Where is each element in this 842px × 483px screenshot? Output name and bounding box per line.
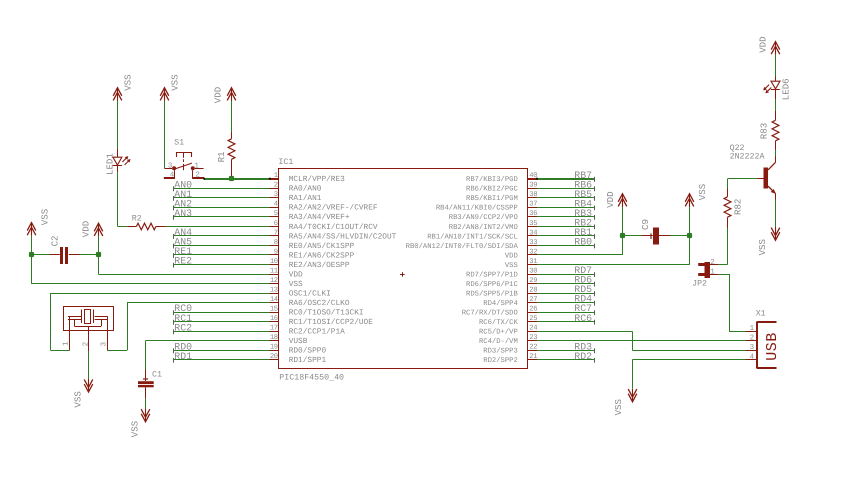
svg-text:3: 3 (274, 191, 278, 199)
svg-text:RA2/AN2/VREF-/CVREF: RA2/AN2/VREF-/CVREF (289, 204, 378, 213)
IC1 pin 18 VUSB (270, 334, 308, 346)
svg-text:1: 1 (710, 268, 715, 276)
IC U1: IC1 PIC18F4550 body (279, 169, 528, 369)
svg-text:RD1/SPP1: RD1/SPP1 (289, 356, 327, 365)
svg-text:VSS: VSS (73, 391, 84, 408)
svg-text:3: 3 (100, 341, 109, 346)
svg-text:IC1: IC1 (278, 158, 293, 167)
supply VSS arrow (X1) (613, 389, 637, 416)
wire end dot MCLR (203, 178, 537, 180)
svg-text:VSS: VSS (613, 398, 624, 415)
svg-text:RC6: RC6 (574, 313, 592, 324)
supply VSS arrow (C1) (130, 409, 150, 438)
svg-text:RE1/AN6/CK2SPP: RE1/AN6/CK2SPP (289, 251, 355, 260)
wire C2-VDD to IC1 pin 11 (98, 255, 269, 275)
svg-text:RB1/AN10/INT1/SCK/SCL: RB1/AN10/INT1/SCK/SCL (427, 232, 518, 241)
svg-text:RA6/OSC2/CLKO: RA6/OSC2/CLKO (289, 299, 350, 308)
junction VSS/C2 (29, 252, 34, 257)
svg-text:RD0/SPP0: RD0/SPP0 (289, 347, 327, 356)
svg-text:USB: USB (764, 332, 781, 361)
net label RD3 wire from pin 22 (537, 341, 595, 353)
svg-text:RA5/AN4/SS/HLVDIN/C2OUT: RA5/AN4/SS/HLVDIN/C2OUT (289, 232, 397, 241)
IC1 pin 38 RB5/KBI1/PGM (466, 191, 537, 203)
svg-text:14: 14 (270, 296, 278, 304)
svg-text:R83: R83 (758, 123, 769, 139)
IC1 pin 22 RD3/SPP3 (483, 344, 537, 356)
net label RB3 wire from pin 36 (537, 208, 595, 220)
svg-text:RA3/AN4/VREF+: RA3/AN4/VREF+ (289, 213, 350, 222)
IC1 pin 25 RC6/TX/CK (479, 315, 537, 327)
switch S1 (164, 138, 204, 179)
svg-text:RE2: RE2 (174, 256, 192, 267)
svg-text:R82: R82 (732, 199, 743, 215)
IC1 name label (278, 158, 293, 167)
IC1 pin 4 RA2/AN2/VREF-/CVREF (270, 201, 378, 213)
svg-text:21: 21 (529, 353, 537, 361)
svg-text:24: 24 (529, 325, 537, 333)
svg-text:VDD: VDD (213, 87, 224, 103)
svg-text:32: 32 (529, 248, 537, 256)
svg-text:RD2/SPP2: RD2/SPP2 (483, 356, 518, 365)
wire Q22 emitter to VSS (775, 193, 777, 228)
svg-text:VSS: VSS (697, 183, 708, 200)
svg-text:RA4/T0CKI/C1OUT/RCV: RA4/T0CKI/C1OUT/RCV (289, 223, 378, 232)
supply VSS arrow (S1) (160, 74, 180, 101)
svg-text:RD5/SPP5/P1B: RD5/SPP5/P1B (466, 290, 518, 299)
svg-text:RE2/AN3/OESPP: RE2/AN3/OESPP (289, 261, 350, 270)
net label RD5 wire from pin 28 (537, 284, 595, 296)
IC1 pin 21 RD2/SPP2 (483, 353, 537, 365)
svg-text:VDD: VDD (289, 270, 303, 279)
IC1 pin 40 RB7/KBI3/PGD (466, 172, 537, 184)
supply VDD arrow (C9) (605, 191, 627, 207)
svg-text:VUSB: VUSB (289, 337, 308, 346)
IC1 pin 8 RE0/AN5/CK1SPP (270, 239, 355, 251)
wire VDD to LED6 (775, 55, 777, 77)
svg-text:12: 12 (270, 277, 278, 285)
transistor Q22 (730, 144, 776, 194)
svg-text:27: 27 (529, 296, 537, 304)
junction VDD/C9 (620, 233, 625, 238)
wire C2-VSS to IC1 pin 12 (31, 255, 269, 284)
svg-text:VSS: VSS (40, 208, 51, 225)
wire LED6 to R83 (775, 99, 777, 111)
svg-text:7: 7 (274, 229, 278, 237)
wire VSS arrow down (689, 207, 691, 236)
svg-text:18: 18 (270, 334, 278, 342)
svg-text:MCLR/VPP/RE3: MCLR/VPP/RE3 (289, 175, 345, 184)
net label AN5 wire to pin 8 (173, 237, 269, 249)
net label RC1 wire to pin 16 (173, 313, 269, 325)
wire pin32 VDD (537, 236, 623, 255)
wire R82 to Q22 base (728, 179, 757, 189)
IC1 pin 39 RB6/KBI2/PGC (466, 182, 537, 194)
svg-text:20: 20 (270, 353, 278, 361)
capacitor C2 (31, 235, 98, 264)
svg-text:JP2: JP2 (692, 279, 707, 288)
resistor R82 (724, 189, 743, 229)
svg-text:VSS: VSS (505, 262, 518, 270)
IC1 pin 35 RB2/AN8/INT2/VMO (449, 220, 537, 232)
svg-text:15: 15 (270, 306, 278, 314)
svg-text:RC7/RX/DT/SDO: RC7/RX/DT/SDO (462, 309, 518, 318)
IC1 pin 34 RB1/AN10/INT1/SCK/SCL (427, 229, 537, 241)
svg-text:RD1: RD1 (174, 351, 192, 362)
resistor R2 (127, 214, 166, 229)
IC1 pin 7 RA5/AN4/SS/HLVDIN/C2OUT (270, 229, 397, 241)
wire VDD to R1 (231, 101, 233, 132)
net label RB6 wire from pin 39 (537, 179, 595, 191)
supply VDD arrow (C2) (81, 221, 103, 237)
svg-text:37: 37 (529, 201, 537, 209)
svg-text:5: 5 (274, 210, 278, 218)
svg-text:1: 1 (750, 325, 755, 333)
wire LED1 to R2 corner (117, 172, 127, 226)
svg-text:VSS: VSS (122, 74, 133, 91)
net label RE2 wire to pin 10 (173, 256, 269, 268)
pin header JP2 (692, 258, 719, 289)
wire X1 pin4 to VSS (632, 360, 745, 389)
svg-text:VSS: VSS (289, 280, 303, 289)
wire VSS to C2 (31, 236, 33, 255)
wire R83 to Q22 collector (775, 150, 777, 162)
svg-text:34: 34 (529, 229, 537, 237)
svg-text:RD6/SPP6/P1C: RD6/SPP6/P1C (466, 280, 518, 289)
connector X1 USB (746, 310, 782, 369)
supply VSS arrow (C9) (685, 183, 708, 207)
svg-text:RD4/SPP4: RD4/SPP4 (483, 299, 518, 308)
svg-text:LED1: LED1 (105, 153, 116, 175)
svg-text:35: 35 (529, 220, 537, 228)
IC1 pin 27 RD4/SPP4 (483, 296, 537, 308)
svg-text:PIC18F4550_40: PIC18F4550_40 (279, 373, 344, 382)
wire pin31 VSS (537, 236, 690, 265)
svg-text:RB2/AN8/INT2/VMO: RB2/AN8/INT2/VMO (449, 223, 518, 232)
IC1 pin 31 VSS (505, 258, 537, 270)
svg-text:2N2222A: 2N2222A (730, 152, 765, 161)
svg-text:4: 4 (750, 353, 755, 361)
net label AN3 wire to pin 5 (173, 208, 269, 220)
svg-text:C2: C2 (50, 235, 61, 246)
resonator 3-pin (62, 307, 113, 352)
IC1 pin 28 RD5/SPP5/P1B (466, 287, 537, 299)
svg-text:2: 2 (274, 182, 278, 190)
svg-text:17: 17 (270, 325, 278, 333)
IC1 pin 9 RE1/AN6/CK2SPP (270, 248, 355, 260)
IC1 pin 10 RE2/AN3/OESPP (270, 258, 350, 270)
svg-text:RB7/KBI3/PGD: RB7/KBI3/PGD (466, 175, 518, 184)
IC1 pin 24 RC5/D+/VP (479, 325, 537, 337)
svg-text:RC4/D-/VM: RC4/D-/VM (479, 337, 518, 346)
IC1 pin 2 RA0/AN0 (270, 182, 322, 194)
svg-text:RB0: RB0 (574, 237, 592, 248)
net label RC2 wire to pin 17 (173, 322, 269, 334)
net label AN1 wire to pin 3 (173, 189, 269, 201)
IC1 pin 3 RA1/AN1 (270, 191, 322, 203)
svg-text:3: 3 (168, 161, 173, 170)
svg-text:26: 26 (529, 306, 537, 314)
IC1 pin 15 RC0/T1OSO/T13CKI (270, 306, 364, 318)
svg-text:3: 3 (750, 343, 755, 352)
IC1 pin 6 RA4/T0CKI/C1OUT/RCV (270, 220, 378, 232)
LED LED6 (763, 77, 791, 101)
svg-text:30: 30 (529, 267, 537, 275)
net label RB2 wire from pin 35 (537, 217, 595, 229)
svg-text:RB5/KBI1/PGM: RB5/KBI1/PGM (466, 194, 518, 203)
supply VDD arrow (LED6) (757, 36, 779, 54)
svg-text:VDD: VDD (81, 221, 92, 237)
wire pin24 D+ to X1 pin3 (537, 331, 746, 350)
net label RD1 wire to pin 20 (173, 351, 269, 363)
svg-text:RD7/SPP7/P1D: RD7/SPP7/P1D (466, 270, 518, 279)
svg-text:RA0/AN0: RA0/AN0 (289, 185, 322, 194)
net label AN0 wire to pin 2 (173, 179, 269, 191)
svg-text:10: 10 (270, 258, 278, 266)
svg-text:19: 19 (270, 344, 278, 352)
supply VSS arrow (LED1) (113, 74, 133, 101)
net label RC6 wire from pin 25 (537, 313, 595, 325)
IC1 pin 33 RB0/AN12/INT0/FLT0/SDI/SDA (406, 239, 538, 251)
junction R1/MCLR (229, 176, 234, 181)
svg-text:4: 4 (274, 201, 278, 209)
net label RD6 wire from pin 29 (537, 275, 595, 287)
svg-text:RC2: RC2 (174, 322, 192, 333)
net label RD7 wire from pin 30 (537, 265, 595, 277)
wire pin23 D- to X1 pin2 (537, 340, 746, 342)
IC1 pin 20 RD1/SPP1 (270, 353, 327, 365)
net label RD2 wire from pin 21 (537, 351, 595, 363)
IC1 pin 30 RD7/SPP7/P1D (466, 267, 537, 279)
IC1 pin 5 RA3/AN4/VREF+ (270, 210, 350, 222)
net label RB1 wire from pin 34 (537, 227, 595, 239)
svg-text:RB4/AN11/KBI0/CSSPP: RB4/AN11/KBI0/CSSPP (436, 204, 518, 213)
svg-text:AN3: AN3 (174, 208, 192, 219)
svg-text:RB3/AN9/CCP2/VPO: RB3/AN9/CCP2/VPO (449, 213, 518, 222)
svg-text:22: 22 (529, 344, 537, 352)
IC1 pin 1 MCLR/VPP/RE3 (270, 172, 346, 184)
supply VSS arrow (Q22) (757, 227, 780, 255)
IC1 origin cross (400, 272, 405, 277)
resistor R1 (216, 132, 235, 178)
IC1 pin 13 OSC1/CLKI (270, 287, 331, 299)
svg-text:23: 23 (529, 334, 537, 342)
capacitor C9 (623, 219, 690, 244)
svg-text:33: 33 (529, 239, 537, 247)
svg-text:31: 31 (529, 258, 537, 266)
LED LED1 (105, 149, 131, 175)
svg-text:2: 2 (81, 342, 90, 347)
net label RE1 wire to pin 9 (173, 246, 269, 258)
svg-text:VSS: VSS (170, 74, 181, 91)
net label RB5 wire from pin 38 (537, 189, 595, 201)
svg-text:S1: S1 (174, 138, 184, 147)
svg-text:28: 28 (529, 287, 537, 295)
resistor R83 (758, 111, 778, 150)
svg-text:25: 25 (529, 315, 537, 323)
svg-text:R2: R2 (132, 214, 142, 223)
svg-text:RC1/T1OSI/CCP2/UOE: RC1/T1OSI/CCP2/UOE (289, 318, 374, 327)
IC1 pin 19 RD0/SPP0 (270, 344, 327, 356)
IC1 pin 17 RC2/CCP1/P1A (270, 325, 346, 337)
svg-text:13: 13 (270, 287, 278, 295)
IC1 pin 16 RC1/T1OSI/CCP2/UOE (270, 315, 374, 327)
IC1 pin 26 RC7/RX/DT/SDO (462, 306, 537, 318)
capacitor C1 (138, 370, 162, 399)
svg-text:4: 4 (170, 171, 175, 179)
svg-text:RA1/AN1: RA1/AN1 (289, 194, 322, 203)
svg-text:LED6: LED6 (780, 78, 791, 100)
supply VSS arrow (resonator) (73, 379, 93, 408)
svg-text:RD3/SPP3: RD3/SPP3 (483, 347, 518, 356)
IC1 pin 32 VDD (505, 248, 537, 260)
wire C1 to VSS (145, 399, 147, 409)
IC1 value label PIC18F4550_40 (279, 373, 344, 382)
wire S1 to IC1 pin 1 (MCLR) (204, 178, 269, 180)
svg-text:9: 9 (274, 248, 278, 256)
net label RB4 wire from pin 37 (537, 198, 595, 210)
svg-text:RC6/TX/CK: RC6/TX/CK (479, 318, 519, 327)
svg-text:38: 38 (529, 191, 537, 199)
wire JP2 pin1 to X1 pin1 (719, 274, 746, 332)
net label RC0 wire to pin 15 (173, 303, 269, 315)
wire VSS to LED1 (117, 101, 119, 149)
svg-text:RC0/T1OSO/T13CKI: RC0/T1OSO/T13CKI (289, 309, 364, 318)
svg-text:2: 2 (750, 333, 755, 342)
junction VSS/C9 (687, 233, 692, 238)
svg-text:OSC1/CLKI: OSC1/CLKI (289, 290, 331, 299)
svg-text:11: 11 (270, 267, 278, 275)
svg-text:VDD: VDD (757, 36, 768, 52)
svg-text:R1: R1 (216, 151, 227, 162)
svg-text:RD2: RD2 (574, 351, 592, 362)
svg-text:VSS: VSS (130, 420, 141, 437)
svg-text:40: 40 (529, 172, 537, 180)
svg-text:VDD: VDD (505, 252, 518, 260)
wire JP2 pin2 to R82 (719, 228, 728, 265)
svg-text:2: 2 (710, 258, 715, 267)
svg-text:RC2/CCP1/P1A: RC2/CCP1/P1A (289, 328, 345, 337)
wire VSS to S1 pin 3 (164, 101, 166, 168)
net label RD4 wire from pin 27 (537, 294, 595, 306)
IC1 pin 29 RD6/SPP6/P1C (466, 277, 537, 289)
svg-text:6: 6 (274, 220, 278, 228)
wire R2 to IC1 pin 6 (166, 226, 270, 228)
net label AN4 wire to pin 7 (173, 227, 269, 239)
wire VDD to C2 (98, 236, 100, 255)
svg-text:8: 8 (274, 239, 278, 247)
svg-text:1: 1 (274, 172, 278, 180)
net label RC7 wire from pin 26 (537, 303, 595, 315)
svg-text:RC5/D+/VP: RC5/D+/VP (479, 328, 518, 337)
svg-text:39: 39 (529, 182, 537, 190)
svg-text:1: 1 (62, 341, 70, 346)
svg-text:X1: X1 (756, 310, 766, 319)
svg-text:C9: C9 (640, 219, 651, 230)
svg-text:36: 36 (529, 210, 537, 218)
wire VUSB pin18 to C1 (146, 341, 270, 370)
svg-text:C1: C1 (152, 370, 162, 379)
net label AN2 wire to pin 4 (173, 198, 269, 210)
svg-text:1: 1 (194, 162, 199, 170)
wire resonator pin3 to OSC2 (107, 303, 269, 351)
svg-text:16: 16 (270, 315, 278, 323)
IC1 pin 12 VSS (270, 277, 304, 289)
IC1 pin 14 RA6/OSC2/CLKO (270, 296, 350, 308)
net label RB7 wire from pin 40 (537, 170, 595, 182)
wire resonator pin1 to OSC1 (51, 293, 270, 350)
svg-text:2: 2 (195, 170, 200, 179)
svg-text:VSS: VSS (757, 238, 768, 255)
svg-text:29: 29 (529, 277, 537, 285)
net label RB0 wire from pin 33 (537, 237, 595, 249)
net label RD0 wire to pin 19 (173, 341, 269, 353)
svg-text:VDD: VDD (605, 191, 616, 207)
svg-text:RE0/AN5/CK1SPP: RE0/AN5/CK1SPP (289, 242, 355, 251)
svg-text:RB0/AN12/INT0/FLT0/SDI/SDA: RB0/AN12/INT0/FLT0/SDI/SDA (406, 242, 519, 251)
IC1 pin 36 RB3/AN9/CCP2/VPO (449, 210, 537, 222)
junction VDD/C2 (96, 252, 101, 257)
wire resonator pin2 to VSS (88, 351, 90, 379)
svg-text:RB6/KBI2/PGC: RB6/KBI2/PGC (466, 185, 518, 194)
IC1 pin 11 VDD (270, 267, 304, 279)
supply VDD arrow (R1) (213, 87, 236, 103)
supply VSS arrow (C2) (27, 208, 50, 236)
wire VDD arrow down (622, 207, 624, 236)
IC1 pin 23 RC4/D-/VM (479, 334, 537, 346)
IC1 pin 37 RB4/AN11/KBI0/CSSPP (436, 201, 537, 213)
